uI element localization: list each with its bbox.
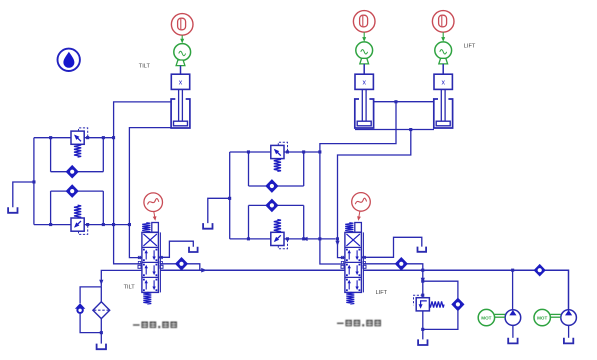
tank [97, 344, 106, 350]
lift cylinder1 cylinder [355, 99, 374, 128]
lift valve valve body [345, 232, 362, 292]
lift block tank line [208, 198, 230, 223]
junction [409, 128, 412, 131]
main line [160, 269, 345, 271]
lift block check valve [266, 199, 278, 211]
lift cylinder1 mass block [355, 74, 373, 89]
lift cylinder1 signal source [353, 11, 375, 33]
lift block junction [247, 237, 250, 240]
svg-text:MOT: MOT [537, 315, 547, 320]
tank [418, 247, 427, 252]
wire lift bore-side bus [355, 129, 434, 131]
lift valve valve port marks [341, 256, 343, 258]
junction [421, 269, 424, 272]
motor1 [478, 309, 494, 325]
lift block wire [249, 204, 304, 206]
pump2 [561, 310, 577, 326]
pump1 [505, 310, 521, 326]
tilt cylinder cylinder [171, 99, 190, 128]
tilt block junction [49, 136, 52, 139]
lift block junction [286, 237, 289, 240]
check valve poppet [75, 303, 85, 309]
lift valve valve divider [345, 276, 362, 278]
tilt cylinder piston rod [178, 89, 180, 121]
svg-text:x: x [179, 79, 183, 86]
tilt valve valve divider [142, 276, 159, 278]
tilt block check valve [66, 185, 78, 197]
junction [128, 223, 131, 226]
tank [564, 338, 573, 344]
lift valve valve side line [362, 232, 364, 292]
lift block relief valve [271, 145, 284, 158]
junction [100, 331, 103, 334]
tilt valve valve box arrows [145, 252, 147, 259]
lift block wire [229, 152, 231, 239]
tilt valve valve divider [142, 246, 159, 248]
lift cylinder2 signal arrow [442, 32, 444, 40]
lift valve valve divider [345, 261, 362, 263]
motor2 [534, 309, 550, 325]
wire tilt rod-side [114, 102, 172, 264]
tilt valve valve port marks [138, 256, 140, 258]
tank [189, 247, 198, 252]
lift cylinder1 signal arrow [363, 32, 365, 40]
lift block wire [230, 238, 336, 240]
tilt block junction [102, 223, 105, 226]
svg-text:LIFT: LIFT [376, 290, 388, 296]
filter [93, 302, 110, 319]
lift valve valve box arrows [348, 267, 350, 274]
flow arrow [335, 241, 339, 246]
tilt valve valve divider [142, 261, 159, 263]
flow arrow [99, 280, 103, 285]
shaft2 [550, 313, 560, 315]
lift block wire [230, 151, 320, 153]
lift block wire [248, 205, 250, 239]
label shangyi-qingxie [133, 322, 177, 329]
tilt block wire [51, 190, 104, 192]
lift cylinder2 piston rod [440, 89, 442, 121]
junction [32, 180, 35, 183]
wire pump2 tank [568, 325, 570, 337]
tilt valve valve return spring [143, 292, 151, 304]
lift valve signal arrow [359, 211, 360, 219]
tilt block junction [86, 223, 89, 226]
tilt block wire [33, 138, 35, 225]
lift cylinder1 piston rod [361, 89, 363, 121]
lift block wire [303, 152, 305, 186]
tilt valve valve pilot spring [142, 223, 150, 232]
tilt block wire [50, 138, 52, 172]
tilt cylinder signal source [171, 14, 193, 36]
tilt cylinder force converter [174, 44, 191, 61]
lift valve valve box arrows [348, 252, 350, 259]
lift valve valve pilot spring [345, 223, 353, 232]
tilt valve valve box arrows [145, 267, 147, 274]
tilt block wire [50, 191, 52, 225]
lift block junction [286, 150, 289, 153]
flow arrow [302, 237, 307, 241]
wire filter down [100, 319, 102, 344]
junction [394, 100, 397, 103]
tilt valve signal source [144, 193, 163, 212]
wire filter line [100, 287, 102, 302]
lift valve valve box cross [346, 234, 360, 246]
tilt block wire [102, 138, 104, 172]
tilt block wire [34, 137, 114, 139]
tilt block check valve [66, 166, 78, 178]
shaft1 [495, 313, 506, 315]
lift block junction [318, 150, 321, 153]
flow arrow [201, 268, 207, 273]
tilt cylinder mass block [171, 74, 189, 89]
wire check down [423, 311, 458, 330]
junction [421, 280, 424, 283]
lift cylinder2 mass block [434, 74, 452, 89]
svg-text:MOT: MOT [481, 315, 491, 320]
lift cylinder1 force converter [356, 42, 373, 59]
lift cylinder2 force converter [435, 42, 452, 59]
tilt valve valve side line [159, 232, 161, 292]
tilt block tank line [13, 182, 34, 207]
wire tilt bore-side [129, 128, 171, 258]
tilt block wire [102, 191, 104, 225]
wire lift bore-side down [338, 130, 411, 258]
check valve [176, 258, 188, 270]
lift block relief valve [271, 232, 284, 245]
lift block junction [318, 237, 321, 240]
check valve main [534, 265, 545, 276]
wire tilt P check line [160, 264, 199, 270]
main line left drain [101, 270, 142, 287]
lift cylinder1 piston [357, 121, 371, 126]
svg-text:x: x [441, 79, 445, 86]
relief valve [416, 298, 429, 311]
wire pump1 tank [512, 325, 514, 337]
lift cylinder2 signal source [432, 11, 454, 33]
wire check branch down [80, 314, 101, 333]
tilt block relief valve [71, 131, 84, 144]
tilt valve signal arrow [154, 212, 155, 220]
tilt valve valve body [142, 232, 159, 292]
junction [336, 237, 339, 240]
tilt block junction [49, 223, 52, 226]
tilt valve valve solenoid block [152, 223, 159, 233]
tilt valve valve box arrows [145, 282, 147, 289]
tank [418, 339, 427, 345]
lift block check valve [266, 180, 278, 192]
lift valve valve solenoid block [355, 223, 362, 233]
svg-text:x: x [362, 79, 366, 86]
lift cylinder2 converter base [439, 58, 448, 64]
tilt cylinder converter base [176, 60, 185, 66]
tilt block relief valve [71, 218, 84, 231]
tank [508, 338, 517, 344]
lift valve valve box arrows [348, 282, 350, 289]
svg-text:TILT: TILT [139, 63, 151, 69]
lift cylinder1 converter base [360, 58, 369, 64]
tilt block junction [86, 136, 89, 139]
lift valve valve divider [345, 246, 362, 248]
lift block junction [247, 150, 250, 153]
wire lift rod-side bus [374, 101, 434, 103]
label shangyi-luobi [337, 320, 381, 327]
tilt cylinder stem [180, 66, 182, 75]
wire lift rod-side down [320, 102, 396, 264]
check valve [452, 298, 464, 310]
lift cylinder2 stem [442, 64, 444, 74]
lift valve signal source [352, 193, 371, 212]
tilt cylinder piston [174, 121, 188, 126]
tilt block junction [102, 136, 105, 139]
wire relief down [422, 311, 424, 340]
junction [511, 269, 514, 272]
wire lift T to tank [361, 237, 421, 257]
wire relief drop [422, 270, 424, 298]
wire pump1 feed [512, 270, 514, 310]
tank [203, 223, 212, 229]
lift valve valve return spring [346, 292, 354, 304]
svg-text:LIFT: LIFT [464, 43, 476, 49]
wire tilt T to tank [158, 241, 193, 257]
lift block wire [248, 152, 250, 186]
tilt block wire [51, 171, 104, 173]
lift cylinder1 stem [363, 64, 365, 74]
lift block junction [302, 150, 305, 153]
junction [421, 328, 424, 331]
lift block wire [303, 205, 305, 239]
svg-text:TILT: TILT [124, 285, 136, 291]
tilt block junction [112, 223, 115, 226]
lift block junction [302, 237, 305, 240]
tilt valve valve box cross [143, 234, 157, 246]
fluid properties icon [57, 49, 79, 71]
tilt block junction [112, 136, 115, 139]
lift cylinder2 cylinder [434, 99, 453, 128]
lift block wire [249, 185, 304, 187]
wire check branch [80, 287, 101, 303]
flow arrow [421, 278, 425, 283]
check valve [395, 258, 407, 270]
tilt cylinder signal arrow [181, 35, 183, 41]
tilt block wire [34, 224, 129, 226]
lift cylinder2 piston [436, 121, 450, 126]
wire relief branch right [423, 281, 458, 298]
tank [8, 207, 17, 213]
main line [363, 270, 568, 310]
wire lift P check line [363, 264, 422, 270]
junction [228, 197, 231, 200]
